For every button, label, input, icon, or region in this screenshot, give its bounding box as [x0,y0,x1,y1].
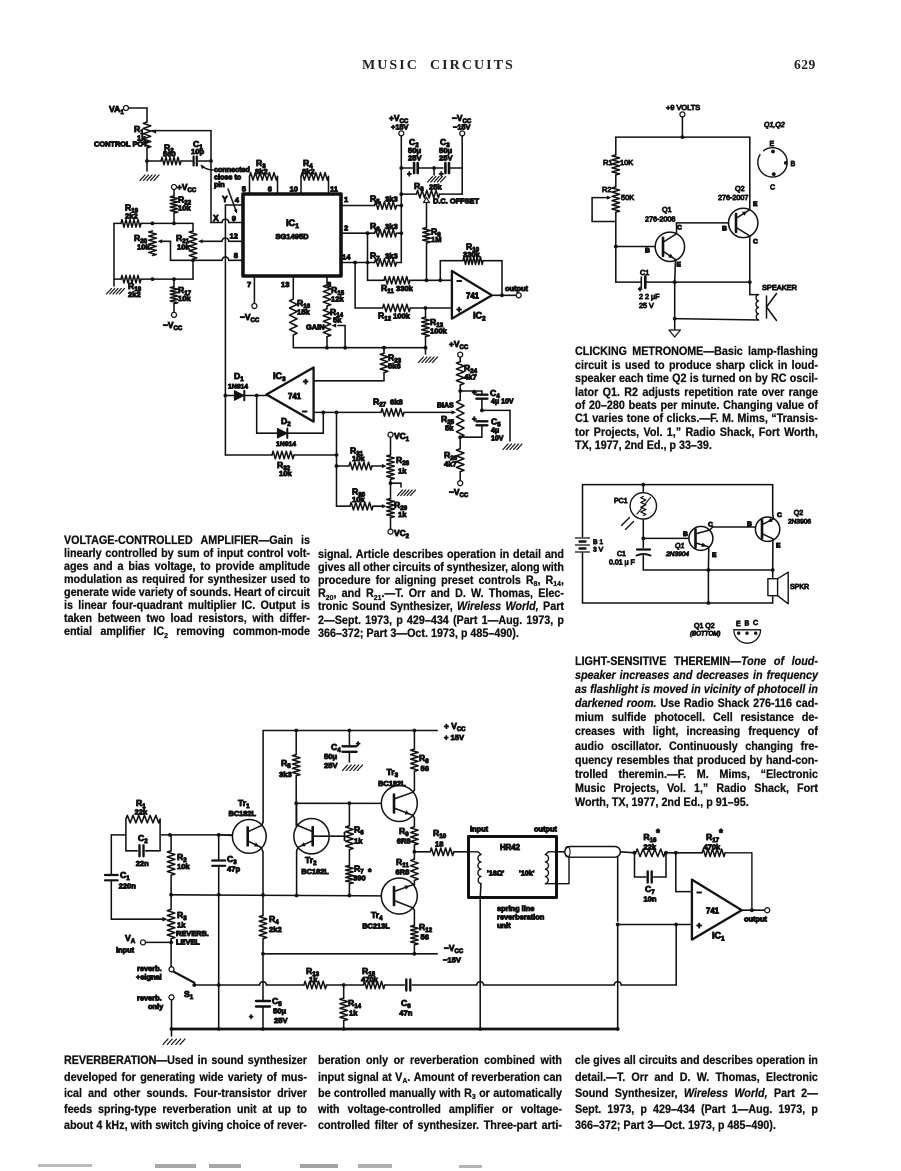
switch S1 lever [174,972,195,1001]
capacitor C3 47p [212,835,240,895]
wire right rail to Q2 [772,485,775,519]
svg-text:R6: R6 [354,825,364,837]
ground (C4 C5 junction) [482,410,522,449]
resistor R15 12k (pin 3) [323,276,344,306]
caption voltage-controlled amplifier col2 [318,548,564,640]
svg-text:470k: 470k [361,975,379,984]
svg-text:−VCC: −VCC [444,943,464,955]
svg-text:E: E [770,141,775,148]
svg-text:4k7: 4k7 [444,460,457,469]
svg-text:18: 18 [435,840,443,849]
wire Tr3 collector [413,790,415,792]
power -Vcc terminal (R17) [163,304,183,332]
svg-text:D.C. OFFSET: D.C. OFFSET [433,197,479,206]
svg-text:*: * [656,828,660,839]
wire row to IC1 plus riser [477,925,676,986]
svg-text:2k2: 2k2 [125,212,138,221]
svg-text:5k: 5k [333,316,342,325]
node R9 R10 R11 junction [413,850,417,854]
svg-text:741: 741 [466,292,480,301]
power +9 VOLTS terminal [666,103,700,137]
svg-text:100k: 100k [430,327,448,336]
svg-text:VA1: VA1 [109,104,124,116]
svg-text:C1: C1 [120,870,130,882]
svg-text:IC3: IC3 [273,371,286,383]
svg-text:6R8: 6R8 [397,837,411,846]
svg-text:output: output [534,825,558,834]
svg-text:15k: 15k [297,308,310,317]
svg-text:10k: 10k [177,862,190,871]
svg-text:1k: 1k [354,837,363,846]
svg-text:C: C [753,620,758,627]
svg-text:R28: R28 [396,455,410,467]
svg-text:B: B [747,521,752,528]
svg-text:−VCC: −VCC [449,487,469,499]
svg-text:R11: R11 [381,283,394,295]
resistor R9 1M [423,227,442,281]
svg-text:1: 1 [344,195,349,204]
wire C1 bottom row [643,568,774,572]
svg-text:1k: 1k [398,510,407,519]
wire IC3 output [255,394,267,398]
resistor R6 1k preset [346,803,365,849]
wire Q2 emitter to rail [749,137,751,210]
ground (metronome arrow type) [669,319,680,337]
wire top rail [583,483,773,487]
svg-text:10k: 10k [178,294,191,303]
resistor R3 8k2 (pins 5-6) [242,158,278,194]
svg-text:C: C [753,239,758,246]
svg-text:+15V: +15V [391,123,409,132]
svg-text:+: + [697,921,702,931]
svg-text:R27: R27 [373,397,387,409]
resistor R8 56 [411,729,430,791]
svg-text:pin: pin [214,180,225,189]
svg-text:10k: 10k [279,469,292,478]
node Y pin 4 wire [222,194,243,396]
svg-text:10k: 10k [352,495,365,504]
resistor R30 10k [337,487,387,511]
svg-text:CONTROL POT.: CONTROL POT. [94,140,149,149]
svg-text:5: 5 [242,185,247,194]
svg-text:S1: S1 [184,989,194,1001]
wire left rail lower [614,212,618,282]
svg-text:5k6: 5k6 [388,362,401,371]
svg-text:25k: 25k [429,183,442,192]
svg-text:22n: 22n [136,859,149,868]
node X vertical wire [209,131,219,223]
resistor R14 5k gain pot [306,306,345,348]
photocell PC1 [614,493,657,530]
svg-text:Tr2: Tr2 [305,855,317,867]
node VA input [116,933,173,967]
resistor R6 3k3 (pin 2) [341,221,401,237]
wire pin14 vertical to R12 [354,263,356,309]
svg-text:1N914: 1N914 [228,384,248,391]
svg-text:22k: 22k [643,843,656,852]
svg-text:+: + [303,377,308,387]
svg-text:E: E [712,552,717,559]
transistor Tr2 BC182L mirrored [294,819,330,877]
svg-text:−VCC: −VCC [163,320,183,332]
svg-text:BC182L: BC182L [301,867,329,876]
wire PC1 stems [641,485,645,541]
resistor R13 100k [422,308,448,348]
resistor R12 56 [411,922,433,954]
svg-text:+: + [407,170,412,179]
svg-text:SG1495D: SG1495D [275,232,309,241]
svg-text:47p: 47p [227,865,240,874]
caption reverberation col2 [318,1053,562,1134]
pinout package (bottom view) [690,620,761,643]
speaker SPKR [768,570,809,604]
wire Q1 emitter down [673,260,677,285]
resistor R24 4k7 [456,362,477,385]
svg-text:R2: R2 [602,185,611,194]
svg-text:(BOTTOM): (BOTTOM) [690,631,720,638]
speaker coil [675,282,797,320]
svg-text:8k2: 8k2 [255,167,268,176]
wire input coil to ground rail [478,898,482,1031]
svg-text:4μ 10V: 4μ 10V [491,399,514,406]
wire Tr2 collector [297,803,298,825]
svg-text:output: output [744,915,768,924]
svg-text:PC1: PC1 [614,498,628,505]
svg-text:+: + [439,170,444,179]
diode D2 1N914 feedback [257,396,324,449]
svg-text:GAIN: GAIN [306,323,324,332]
svg-text:SPEAKER: SPEAKER [762,283,797,292]
svg-text:4μ: 4μ [491,428,499,435]
svg-text:IC2: IC2 [473,311,486,323]
svg-text:unit: unit [497,921,511,930]
battery B1 3V [576,538,604,554]
svg-text:Y: Y [222,194,228,204]
svg-text:470k: 470k [703,843,721,852]
shielded cable [557,847,621,858]
svg-text:3k3: 3k3 [385,195,398,204]
svg-text:VC2: VC2 [394,528,410,540]
svg-text:*: * [368,867,372,877]
capacitor C1 10p [181,139,211,166]
wire C1 to R3 wiper [111,917,167,922]
svg-text:C: C [770,185,775,192]
svg-text:12k: 12k [331,295,344,304]
svg-text:+VCC: +VCC [449,339,469,351]
svg-text:56: 56 [421,933,429,942]
svg-text:9: 9 [232,214,236,223]
svg-text:390: 390 [353,874,366,883]
svg-text:−15V: −15V [443,956,462,965]
wire R24 to R25 with C4 tap [458,385,482,400]
wire switch common row [192,982,304,987]
transistor Q2 2N3906 [747,510,811,550]
wire R1 to R2 [615,175,617,187]
svg-text:8k2: 8k2 [302,167,315,176]
resistor R8 25k DC offset pot [401,181,479,228]
wire Q1 collector row [710,527,756,530]
svg-text:10k: 10k [178,204,191,213]
svg-text:Tr3: Tr3 [387,767,399,779]
svg-text:IC1: IC1 [712,931,725,943]
wire Tr1 collector to rail [262,731,263,826]
note connected close to pin [201,165,250,214]
resistor R10 330k feedback [440,242,502,296]
svg-text:50K: 50K [621,193,634,202]
svg-text:R10: R10 [433,828,447,840]
wire pin2 vertical to R11 [367,233,369,280]
svg-text:25V: 25V [274,1016,288,1025]
svg-text:HR42: HR42 [500,843,521,852]
svg-text:Q1: Q1 [662,205,672,214]
resistor R19 2k2 [114,203,153,228]
svg-text:50μ: 50μ [324,752,337,761]
power +Vcc rail [263,721,466,742]
svg-text:3k3: 3k3 [279,770,292,779]
resistor R5 3k3 [279,729,300,826]
svg-text:input: input [116,946,135,955]
resistor R17 470k [674,828,752,910]
wire IC3 minus row [314,411,381,415]
svg-text:330k: 330k [396,284,414,293]
svg-text:−: − [302,407,307,417]
capacitor C1 220n [105,870,136,919]
svg-text:10V: 10V [491,436,504,443]
resistor R28 1k preset [387,455,410,479]
svg-text:R5: R5 [281,758,291,770]
svg-text:47n: 47n [399,1009,412,1018]
svg-text:*: * [719,828,723,839]
svg-text:−15V: −15V [453,123,471,132]
capacitor C4 50u 25V decoupling [324,729,360,770]
wire C3 down to row and ground [217,895,221,1031]
svg-text:+: + [356,739,360,748]
wire Tr4 emitter to R12 [413,908,415,926]
capacitor C1 22uF 25V [616,268,675,310]
wire base row to Q1 [643,531,689,538]
svg-text:+ VCC: + VCC [444,721,466,733]
svg-text:2N3906: 2N3906 [788,519,811,526]
svg-text:14: 14 [342,253,351,262]
input transducer coil 16 ohm [469,852,505,898]
resistor R7 3k3 (pin 14) [341,251,401,267]
resistor R29 1k preset [387,499,408,520]
wire left node to C1 [111,835,126,875]
svg-text:10k: 10k [177,243,190,252]
svg-text:6: 6 [268,185,272,194]
wire Tr1 base [219,834,233,837]
svg-text:1M: 1M [431,235,442,244]
svg-text:741: 741 [706,907,720,916]
resistor R15 470k [344,966,405,989]
svg-text:100k: 100k [393,312,411,321]
svg-text:1N914: 1N914 [276,441,296,448]
wire Q1 emitter to bottom rail [707,570,711,605]
capacitor C1 0.01uF [609,538,651,570]
svg-text:SPKR: SPKR [790,584,809,591]
resistor R12 100k [355,304,452,322]
wire top rail [616,135,750,139]
resistor R17 10k [151,277,192,303]
svg-text:7: 7 [247,280,251,289]
node output of IC2 [492,284,529,298]
capacitor C2 50u 25V [401,137,434,179]
svg-text:R1: R1 [603,158,612,167]
svg-text:3 V: 3 V [593,547,604,554]
pinout circle Q1 Q2 [758,122,796,192]
svg-text:22k: 22k [135,808,148,817]
wire right node to Tr1 base [160,833,232,837]
svg-text:330k: 330k [463,250,481,259]
resistor R7 390 [346,850,372,896]
caption clicking metronome [575,345,818,452]
svg-text:276-2008: 276-2008 [645,215,675,224]
caption reverberation col1 [64,1053,307,1134]
svg-text:+: + [472,415,477,424]
page header MUSIC CIRCUITS [362,58,515,74]
svg-text:Q2: Q2 [735,184,745,193]
transistor Tr4 BC213L [362,878,417,931]
wire C5 to R25 bottom [458,435,482,439]
wire Q2 collector down [749,236,751,282]
svg-text:13: 13 [281,280,289,289]
wire ground drop [673,282,677,320]
wire +Vcc rail [399,136,403,263]
svg-text:10n: 10n [643,895,656,904]
svg-text:B: B [722,226,727,233]
resistor R2 560 [147,143,181,165]
power +Vcc terminal (rail) [389,113,409,136]
ground (between C2 C3) [428,166,446,182]
svg-text:5k: 5k [445,424,454,433]
svg-text:−: − [457,276,462,286]
svg-text:only: only [148,1002,164,1011]
capacitor C3 50u 25V [434,137,462,179]
svg-text:25V: 25V [324,761,338,770]
op-amp IC2 741 [452,271,492,322]
svg-text:10K: 10K [620,158,633,167]
resistor R32 10k [225,396,336,479]
resistor R2 50K pot [602,185,634,212]
power -Vcc terminal (rail) [452,113,472,136]
svg-text:BC182L: BC182L [378,779,406,788]
svg-text:BIAS: BIAS [437,403,454,410]
wire Q2 emitter down [772,539,774,570]
resistor R26 4k7 [444,437,464,472]
transistor Q1 2N3904 [665,522,717,560]
svg-text:741: 741 [288,392,302,401]
svg-text:B: B [791,161,796,168]
svg-text:C1: C1 [640,268,649,277]
svg-text:6k8: 6k8 [390,398,403,407]
svg-text:B: B [745,621,750,628]
svg-text:8: 8 [234,251,238,260]
wire left rail [582,485,584,537]
svg-text:25 V: 25 V [639,301,654,310]
op-amp IC1 741 [692,880,742,943]
wire R16 to IC1 minus [676,853,692,892]
ground (bottom bus) [419,346,438,363]
resistor R4 8k2 (pins 10-11) [290,158,339,194]
svg-text:56: 56 [421,764,429,773]
wire bottom row [675,280,752,284]
scan artifact marks at bottom edge [38,1164,92,1167]
svg-text:'10k': '10k' [519,869,535,878]
resistor R1 10K [603,155,633,175]
svg-text:+VCC: +VCC [177,182,197,194]
svg-text:Q1: Q1 [675,543,684,550]
wire feedback row [169,893,381,898]
svg-text:4: 4 [235,196,240,205]
svg-text:−: − [697,888,702,898]
svg-text:560: 560 [163,150,176,159]
ground (C4) [343,765,363,771]
svg-text:R12: R12 [378,311,392,323]
caption reverberation col3 [575,1053,818,1134]
resistor R11 6R8 [395,852,418,885]
svg-text:E: E [677,262,682,269]
power +Vcc terminal (R22) [172,182,197,196]
svg-text:X: X [213,213,219,223]
resistor R14 1k [340,983,362,1029]
svg-text:2k2: 2k2 [128,290,141,299]
resistor R11 330k [368,277,452,295]
svg-text:LEVEL: LEVEL [176,938,200,947]
caption light-sensitive theremin [575,655,818,810]
svg-text:VC1: VC1 [394,431,410,443]
wire left rail upper [615,137,617,155]
resistor R16 22k [636,828,676,857]
svg-text:−VCC: −VCC [240,312,260,324]
wire bottom bus [293,346,425,350]
wire R23 to IC3 plus [314,380,384,382]
svg-text:Q1 Q2: Q1 Q2 [694,623,715,630]
switch S1 contact reverb+signal [136,964,174,982]
resistor R1 1k control pot [94,122,211,149]
power +Vcc terminal (bias) [449,339,469,362]
capacitor C7 10n [635,853,667,904]
svg-text:VA: VA [125,933,136,945]
spring line unit HR42 box [469,825,558,931]
wire Tr2 collector row [294,801,381,805]
transistor Tr3 BC182L [378,767,417,822]
capacitor C5 50u 25V [249,954,288,1031]
svg-text:E: E [736,621,741,628]
wire cable shield to ground [616,857,620,1031]
svg-text:output: output [505,284,529,293]
wire bottom left rail [114,223,193,279]
svg-text:D1: D1 [234,371,244,383]
resistor R3 1k reverb level pot [167,895,209,947]
power -Vcc terminal (R26) [449,472,469,499]
op-amp IC1 SG1495D box [243,194,341,276]
svg-text:+: + [472,388,477,397]
svg-text:BC182L: BC182L [229,809,257,818]
svg-text:25V: 25V [408,154,422,163]
svg-text:Tr4: Tr4 [371,910,383,922]
svg-text:D2: D2 [281,416,291,428]
svg-text:2 2 μF: 2 2 μF [639,292,660,301]
svg-text:11: 11 [330,185,339,194]
svg-text:25V: 25V [439,154,453,163]
wire Q1 emitter down [707,547,711,572]
svg-text:+signal: +signal [136,973,162,982]
ground (main) [163,1029,185,1045]
svg-text:2k2: 2k2 [269,925,282,934]
svg-text:C2: C2 [138,833,148,845]
resistor R27 6k8 [373,397,456,417]
resistor R20 10k preset [134,231,193,260]
